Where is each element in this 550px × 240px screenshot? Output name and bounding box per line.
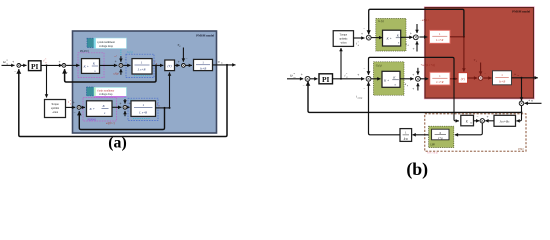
svg-text:L s+R: L s+R — [435, 38, 443, 42]
svg-text:+: + — [12, 60, 14, 64]
svg-text:−: − — [476, 115, 478, 119]
svg-text:Torque: Torque — [51, 103, 59, 106]
svg-text:G (s): G (s) — [376, 64, 382, 67]
svg-text:PMSM model: PMSM model — [196, 34, 214, 38]
svg-text:+ n: + n — [528, 98, 533, 102]
svg-text:Jₖs+Bₖ: Jₖs+Bₖ — [499, 120, 510, 124]
svg-text:(T): (T) — [461, 77, 465, 81]
svg-text:ωƔψ: ωƔψ — [114, 73, 120, 76]
svg-text:K +: K + — [383, 78, 389, 82]
svg-text:voltage drop: voltage drop — [99, 93, 113, 96]
svg-text:(b): (b) — [406, 159, 428, 180]
svg-text:+: + — [412, 87, 414, 91]
svg-text:+: + — [73, 101, 75, 105]
svg-text:(a): (a) — [108, 134, 126, 151]
svg-text:PI(AW): PI(AW) — [88, 119, 97, 122]
svg-text:−: − — [363, 26, 365, 30]
svg-text:−: − — [302, 83, 304, 87]
svg-text:-ation: -ation — [52, 111, 59, 114]
svg-text:+: + — [357, 73, 359, 77]
svg-text:L s+R: L s+R — [137, 68, 146, 72]
svg-text:Torque: Torque — [340, 34, 348, 37]
svg-text:ωƔ(L i ): ωƔ(L i ) — [106, 122, 115, 125]
svg-text:LPF: LPF — [431, 144, 436, 147]
svg-text:m: m — [294, 76, 296, 79]
svg-text:−: − — [73, 111, 75, 115]
svg-text:+: + — [178, 60, 180, 64]
svg-text:−: − — [14, 69, 16, 73]
svg-text:+: + — [301, 73, 303, 77]
svg-text:+ωƔ(L i +ψ): +ωƔ(L i +ψ) — [421, 64, 436, 67]
svg-text:L s+R: L s+R — [138, 110, 147, 114]
svg-text:G (s): G (s) — [127, 51, 133, 54]
svg-text:d axis nonlinear: d axis nonlinear — [97, 89, 114, 92]
svg-text:−: − — [185, 57, 187, 61]
svg-text:−ωƔL i: −ωƔL i — [420, 19, 429, 22]
svg-text:Js+B: Js+B — [499, 80, 506, 84]
svg-text:+: + — [412, 73, 414, 77]
svg-text:K +: K + — [89, 107, 95, 111]
svg-text:-ation: -ation — [340, 41, 347, 44]
svg-text:Js+B: Js+B — [200, 66, 207, 70]
svg-text:K +: K + — [83, 65, 89, 69]
svg-text:1: 1 — [141, 61, 143, 65]
svg-text:s+g: s+g — [438, 136, 443, 140]
svg-text:q axis nonlinear: q axis nonlinear — [97, 41, 115, 44]
svg-text:−: − — [363, 86, 365, 90]
svg-text:−: − — [66, 71, 68, 75]
svg-text:L s+R: L s+R — [435, 80, 443, 84]
svg-text:m: m — [6, 63, 8, 66]
svg-text:−: − — [124, 58, 126, 62]
svg-text:PI: PI — [31, 62, 39, 71]
svg-text:Rev: on pr: Rev: on pr — [427, 151, 438, 154]
svg-text:ESO: ESO — [517, 147, 524, 151]
svg-text:1: 1 — [142, 103, 144, 107]
svg-text:−: − — [484, 71, 486, 75]
svg-text:PI: PI — [322, 75, 330, 84]
svg-text:K̂Te: K̂Te — [403, 137, 409, 140]
svg-text:+: + — [58, 60, 60, 64]
svg-text:+: + — [412, 47, 414, 51]
svg-text:optimiz: optimiz — [339, 38, 348, 41]
svg-text:voltage drop: voltage drop — [99, 45, 114, 48]
svg-text:+: + — [361, 32, 363, 36]
svg-text:Te: Te — [470, 123, 472, 125]
svg-text:−: − — [363, 67, 365, 71]
svg-text:+: + — [410, 31, 412, 35]
svg-text:G (s): G (s) — [378, 20, 384, 23]
svg-text:+: + — [115, 59, 117, 63]
svg-text:+: + — [129, 101, 131, 105]
svg-text:PMSM model: PMSM model — [512, 10, 530, 14]
svg-text:q: q — [407, 85, 408, 87]
svg-text:optimiz: optimiz — [51, 107, 60, 110]
svg-text:+: + — [119, 101, 121, 105]
svg-text:K +: K + — [386, 36, 392, 40]
svg-text:+: + — [486, 115, 488, 119]
